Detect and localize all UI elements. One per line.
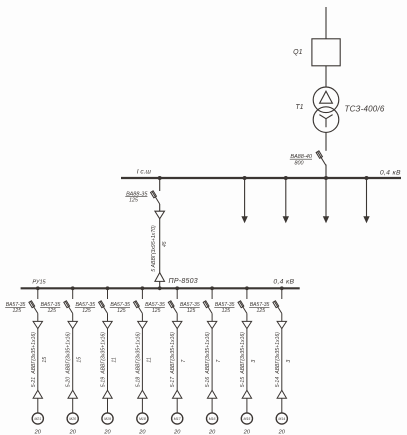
outgoing feeder arrow at x=285.8 xyxy=(283,179,289,223)
cable termination top triangle feeder 1 xyxy=(33,321,42,328)
svg-text:3: 3 xyxy=(286,360,292,363)
motor М17 feeder 5 xyxy=(172,413,183,424)
svg-text:М20: М20 xyxy=(69,417,76,421)
wire stub above triangle feeder 3 xyxy=(107,313,109,321)
transformer T1 secondary winding xyxy=(313,107,339,133)
cable termination bottom triangle feeder 7 xyxy=(242,390,251,398)
cable termination bottom triangle feeder 8 xyxy=(277,390,286,398)
svg-text:АВВГ(3х35+1х16): АВВГ(3х35+1х16) xyxy=(240,332,246,375)
cable termination top triangle feeder 5 xyxy=(173,321,182,328)
wire stub above triangle feeder 4 xyxy=(141,313,143,321)
transformer T1 wye symbol xyxy=(319,115,332,128)
label ВА57-35 feeder 6 xyxy=(180,302,200,308)
svg-text:5-15: 5-15 xyxy=(240,377,246,387)
svg-text:АВВГ(3х35+1х16): АВВГ(3х35+1х16) xyxy=(170,332,176,375)
label ВА57-35 feeder 8 xyxy=(249,302,269,308)
svg-text:125: 125 xyxy=(47,308,56,314)
svg-text:125: 125 xyxy=(187,308,196,314)
wire: to motor feeder 4 xyxy=(141,398,143,413)
svg-text:125: 125 xyxy=(257,308,266,314)
busbar I section 0.4 kV xyxy=(121,177,401,179)
svg-text:5-18: 5-18 xyxy=(135,377,141,387)
cable termination bottom triangle feeder 1 xyxy=(33,390,42,398)
svg-text:АВВГ(3х35+1х16): АВВГ(3х35+1х16) xyxy=(135,332,141,375)
svg-text:20: 20 xyxy=(138,429,146,435)
node junction on busbar РУ, feeder 2 xyxy=(71,286,75,290)
wire: cable run feeder 6 xyxy=(211,329,213,391)
cable termination bottom triangle feeder 3 xyxy=(103,390,112,398)
wire: cable end to РУ busbar xyxy=(159,281,161,287)
motor М16 feeder 6 xyxy=(207,413,218,424)
svg-text:7: 7 xyxy=(181,359,187,363)
label ВА57-35 feeder 5 xyxy=(145,302,165,308)
wire W1: incoming supply drop xyxy=(325,7,327,39)
svg-text:20: 20 xyxy=(243,429,251,435)
wire stub above triangle feeder 2 xyxy=(72,313,74,321)
label ВА57-35 feeder 3 xyxy=(75,302,95,308)
wire W2: Q1 to transformer xyxy=(325,66,327,87)
wire: to motor feeder 6 xyxy=(211,398,213,413)
label ВА88-35 xyxy=(125,192,148,198)
svg-text:5-20: 5-20 xyxy=(66,377,72,387)
cable termination bottom triangle feeder 4 xyxy=(138,390,147,398)
wire: to motor feeder 3 xyxy=(107,398,109,413)
node junction on busbar РУ, feeder 5 xyxy=(175,286,179,290)
wire: feeder 7 tap down xyxy=(246,289,248,299)
svg-text:20: 20 xyxy=(278,429,286,435)
wire: to motor feeder 8 xyxy=(281,398,283,413)
wire: cable run feeder 2 xyxy=(72,329,74,391)
wire stub above triangle feeder 8 xyxy=(281,313,283,321)
wire: cable run feeder 5 xyxy=(176,329,178,391)
node junction on busbar I at x=326 xyxy=(324,176,328,180)
svg-text:11: 11 xyxy=(146,357,152,362)
wire stub above triangle feeder 5 xyxy=(176,313,178,321)
node junction on busbar РУ, feeder 3 xyxy=(106,286,110,290)
wire: feeder 2 tap down xyxy=(72,289,74,299)
svg-text:М18: М18 xyxy=(139,417,146,421)
cable termination top triangle feeder 4 xyxy=(138,321,147,328)
node junction on busbar РУ, feeder 8 xyxy=(280,286,284,290)
motor М20 feeder 2 xyxy=(67,413,78,424)
circuit breaker ВА57-35 feeder 8 (switch symbol) xyxy=(273,301,282,314)
svg-text:0,4 кВ: 0,4 кВ xyxy=(273,278,294,285)
cable termination top triangle feeder 7 xyxy=(242,321,251,328)
wire: cable run feeder 4 xyxy=(141,329,143,391)
wire: cable run feeder 1 xyxy=(37,329,39,391)
node junction on busbar РУ, feeder 6 xyxy=(210,286,214,290)
svg-text:125: 125 xyxy=(152,308,161,314)
wire: feeder 3 tap down xyxy=(107,289,109,299)
outgoing feeder arrow at x=366.5 xyxy=(363,179,369,223)
svg-text:5-21: 5-21 xyxy=(31,377,37,387)
cable termination (bottom, triangle) xyxy=(155,273,165,282)
cable termination top triangle feeder 6 xyxy=(207,321,216,328)
svg-text:АВВГ(3х35+1х16): АВВГ(3х35+1х16) xyxy=(66,332,72,375)
svg-text:45: 45 xyxy=(162,241,168,247)
svg-text:20: 20 xyxy=(34,429,42,435)
label ВА88-40 xyxy=(290,154,313,160)
svg-text:5-17: 5-17 xyxy=(170,376,176,387)
wire: feeder 1 tap down xyxy=(37,289,39,299)
wire: cable run feeder 7 xyxy=(246,329,248,391)
circuit breaker ВА57-35 feeder 2 (switch symbol) xyxy=(64,301,73,314)
wire: to motor feeder 2 xyxy=(72,398,74,413)
svg-text:5-14: 5-14 xyxy=(275,377,281,387)
busbar РУ15 0.4 kV xyxy=(21,287,300,289)
cable termination (top, triangle) xyxy=(155,211,165,219)
svg-text:АВВГ(3х35+1х16): АВВГ(3х35+1х16) xyxy=(31,332,37,375)
node junction on busbar I at x=159.7 xyxy=(158,176,162,180)
cable termination bottom triangle feeder 2 xyxy=(68,390,77,398)
label ВА57-35 feeder 1 xyxy=(5,302,25,308)
label ВА57-35 feeder 2 xyxy=(40,302,60,308)
wire stub above triangle feeder 6 xyxy=(211,313,213,321)
svg-text:М14: М14 xyxy=(278,417,285,421)
motor М14 feeder 8 xyxy=(276,413,287,424)
circuit breaker ВА57-35 feeder 5 (switch symbol) xyxy=(168,301,177,314)
wire: busbar I tap down xyxy=(159,179,161,191)
svg-text:20: 20 xyxy=(69,429,77,435)
cable termination bottom triangle feeder 6 xyxy=(207,390,216,398)
svg-text:М21: М21 xyxy=(34,417,41,421)
svg-text:5-16: 5-16 xyxy=(205,377,211,387)
svg-text:7: 7 xyxy=(216,359,222,363)
svg-text:Q1: Q1 xyxy=(293,49,302,56)
cable termination top triangle feeder 8 xyxy=(277,321,286,328)
node junction on busbar РУ, feeder 1 xyxy=(36,286,40,290)
circuit breaker ВА57-35 feeder 3 (switch symbol) xyxy=(99,301,108,314)
svg-text:М19: М19 xyxy=(104,417,111,421)
svg-text:ПР-8503: ПР-8503 xyxy=(169,278,198,285)
outgoing feeder arrow at x=244.6 xyxy=(241,179,247,223)
svg-text:20: 20 xyxy=(173,429,181,435)
node junction on busbar I at x=366.5 xyxy=(365,176,369,180)
motor М21 feeder 1 xyxy=(32,413,43,424)
circuit breaker ВА57-35 feeder 6 (switch symbol) xyxy=(203,301,212,314)
transformer T1 delta symbol xyxy=(320,91,333,103)
svg-text:800: 800 xyxy=(295,160,304,166)
svg-text:АВВГ(3х35+1х16): АВВГ(3х35+1х16) xyxy=(101,332,107,375)
wire stub above triangle feeder 1 xyxy=(37,313,39,321)
wire: cable run to РУ busbar xyxy=(159,219,161,273)
svg-text:11: 11 xyxy=(112,357,118,362)
svg-text:I с.ш: I с.ш xyxy=(137,168,152,175)
label ВА57-35 feeder 7 xyxy=(214,302,234,308)
node junction on busbar РУ (incoming) xyxy=(158,286,162,290)
svg-text:3: 3 xyxy=(251,360,257,363)
circuit breaker QF1 ВА88-40 (switch symbol) xyxy=(316,151,326,166)
node junction on busbar РУ, feeder 4 xyxy=(141,286,145,290)
svg-text:5-19: 5-19 xyxy=(101,377,107,387)
transformer T1 primary winding xyxy=(313,87,339,113)
wire: breaker to cable head xyxy=(159,204,161,211)
svg-text:М15: М15 xyxy=(243,417,250,421)
svg-text:20: 20 xyxy=(103,429,111,435)
cable termination bottom triangle feeder 5 xyxy=(173,390,182,398)
svg-text:Т1: Т1 xyxy=(295,104,303,111)
svg-text:ТСЗ-400/6: ТСЗ-400/6 xyxy=(345,105,385,114)
wire stub above triangle feeder 7 xyxy=(246,313,248,321)
svg-text:20: 20 xyxy=(208,429,216,435)
wire: cable run feeder 8 xyxy=(281,329,283,391)
svg-text:125: 125 xyxy=(13,308,22,314)
wire: feeder 8 tap down xyxy=(281,289,283,299)
cable termination top triangle feeder 2 xyxy=(68,321,77,328)
svg-text:125: 125 xyxy=(117,308,126,314)
svg-text:АВВГ(3х35+1х16): АВВГ(3х35+1х16) xyxy=(205,332,211,375)
motor М15 feeder 7 xyxy=(241,413,252,424)
svg-text:125: 125 xyxy=(129,198,138,204)
wire: to motor feeder 7 xyxy=(246,398,248,413)
svg-text:15: 15 xyxy=(42,357,48,363)
wire W4: breaker to busbar I xyxy=(325,165,327,178)
wire: cable run feeder 3 xyxy=(107,329,109,391)
node junction on busbar I at x=285.8 xyxy=(284,176,288,180)
wire: to motor feeder 1 xyxy=(37,398,39,413)
svg-text:М17: М17 xyxy=(174,417,182,421)
motor М18 feeder 4 xyxy=(137,413,148,424)
circuit breaker Q1 (box) xyxy=(312,39,340,66)
outgoing feeder arrow at x=326 xyxy=(323,179,329,223)
node junction on busbar I at x=244.6 xyxy=(243,176,247,180)
motor М19 feeder 3 xyxy=(102,413,113,424)
circuit breaker ВА57-35 feeder 7 (switch symbol) xyxy=(238,301,247,314)
svg-text:М16: М16 xyxy=(209,417,216,421)
wire: feeder 5 tap down xyxy=(176,289,178,299)
svg-text:РУ15: РУ15 xyxy=(32,280,46,286)
cable termination top triangle feeder 3 xyxy=(103,321,112,328)
circuit breaker ВА57-35 feeder 1 (switch symbol) xyxy=(29,301,38,314)
label ВА57-35 feeder 4 xyxy=(110,302,130,308)
circuit breaker ВА88-35 (switch symbol) xyxy=(151,191,160,204)
node junction on busbar РУ, feeder 7 xyxy=(245,286,249,290)
wire: to motor feeder 5 xyxy=(176,398,178,413)
svg-text:0,4 кВ: 0,4 кВ xyxy=(380,170,401,177)
svg-text:АВВГ(3х35+1х16): АВВГ(3х35+1х16) xyxy=(275,332,281,375)
svg-text:5 АВВГ(3х95+1х70): 5 АВВГ(3х95+1х70) xyxy=(151,225,157,272)
svg-text:15: 15 xyxy=(77,357,83,363)
wire: feeder 6 tap down xyxy=(211,289,213,299)
svg-text:125: 125 xyxy=(222,308,231,314)
wire W3: transformer to breaker QF1 xyxy=(325,132,327,150)
wire: feeder 4 tap down xyxy=(141,289,143,299)
svg-text:125: 125 xyxy=(82,308,91,314)
circuit breaker ВА57-35 feeder 4 (switch symbol) xyxy=(134,301,143,314)
